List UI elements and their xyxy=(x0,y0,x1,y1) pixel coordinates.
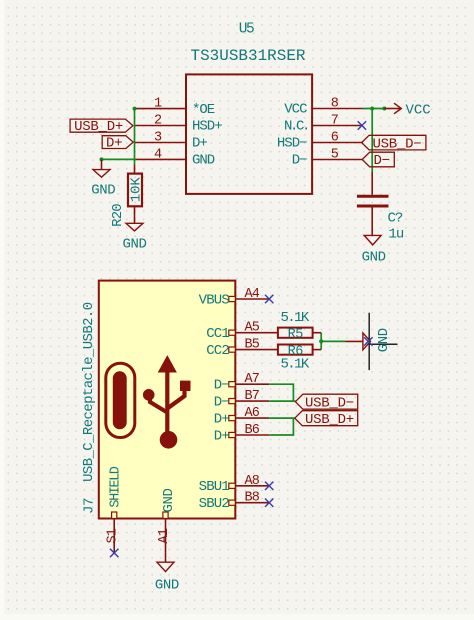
svg-text:D+: D+ xyxy=(192,136,207,152)
svg-text:GND: GND xyxy=(362,250,386,266)
svg-text:R20: R20 xyxy=(110,204,126,227)
svg-text:D−: D− xyxy=(214,378,230,394)
svg-text:U5: U5 xyxy=(239,22,254,38)
svg-text:D+: D+ xyxy=(214,428,230,444)
svg-text:GND: GND xyxy=(122,236,146,252)
svg-text:B7: B7 xyxy=(245,389,260,404)
svg-text:C?: C? xyxy=(388,211,403,227)
svg-text:B6: B6 xyxy=(245,423,260,438)
svg-text:GND: GND xyxy=(161,488,177,512)
svg-text:D−: D− xyxy=(292,153,307,169)
svg-text:D+: D+ xyxy=(106,136,122,152)
svg-text:HSD+: HSD+ xyxy=(192,119,222,135)
svg-text:R5: R5 xyxy=(288,327,304,342)
svg-text:S1: S1 xyxy=(106,528,121,543)
svg-text:CC2: CC2 xyxy=(206,343,229,359)
svg-text:A7: A7 xyxy=(245,372,260,387)
svg-text:B5: B5 xyxy=(245,338,260,353)
svg-text:D−: D− xyxy=(214,394,230,410)
svg-text:5: 5 xyxy=(331,147,339,162)
svg-text:A8: A8 xyxy=(245,474,260,489)
svg-text:N.C.: N.C. xyxy=(284,119,308,135)
svg-text:GND: GND xyxy=(192,153,215,169)
svg-text:GND: GND xyxy=(376,328,392,352)
svg-text:1: 1 xyxy=(154,97,162,112)
svg-text:A4: A4 xyxy=(245,287,260,302)
svg-text:TS3USB31RSER: TS3USB31RSER xyxy=(190,47,305,65)
svg-text:USB_D+: USB_D+ xyxy=(305,412,354,428)
svg-text:USB_D+: USB_D+ xyxy=(74,119,123,135)
svg-text:VCC: VCC xyxy=(406,102,431,118)
svg-text:5.1K: 5.1K xyxy=(281,310,310,326)
svg-text:GND: GND xyxy=(155,578,179,594)
svg-text:CC1: CC1 xyxy=(206,326,229,342)
svg-text:SBU2: SBU2 xyxy=(199,496,230,512)
svg-text:HSD−: HSD− xyxy=(277,136,307,152)
svg-text:GND: GND xyxy=(91,183,115,199)
svg-text:10K: 10K xyxy=(129,177,145,203)
svg-text:A1: A1 xyxy=(157,528,172,543)
svg-text:D−: D− xyxy=(374,153,390,169)
svg-text:B8: B8 xyxy=(245,491,260,506)
svg-text:6: 6 xyxy=(331,130,339,145)
svg-text:2: 2 xyxy=(154,113,162,128)
svg-text:5.1K: 5.1K xyxy=(281,357,310,373)
svg-text:SHIELD: SHIELD xyxy=(108,466,123,507)
svg-text:J7: J7 xyxy=(81,498,97,514)
svg-text:7: 7 xyxy=(331,113,339,128)
svg-text:A6: A6 xyxy=(245,406,260,421)
svg-text:SBU1: SBU1 xyxy=(199,479,230,495)
svg-text:4: 4 xyxy=(154,147,162,162)
svg-text:USB_D−: USB_D− xyxy=(305,395,354,411)
svg-text:D+: D+ xyxy=(214,411,230,427)
svg-text:USB_C_Receptacle_USB2.0: USB_C_Receptacle_USB2.0 xyxy=(81,302,97,482)
svg-text:1u: 1u xyxy=(389,227,404,243)
svg-text:USB_D−: USB_D− xyxy=(373,136,422,152)
svg-text:A5: A5 xyxy=(245,321,260,336)
svg-text:8: 8 xyxy=(331,96,339,111)
svg-text:3: 3 xyxy=(154,130,162,145)
svg-text:*OE: *OE xyxy=(192,102,215,118)
svg-text:VCC: VCC xyxy=(284,102,307,118)
svg-text:VBUS: VBUS xyxy=(199,292,230,308)
